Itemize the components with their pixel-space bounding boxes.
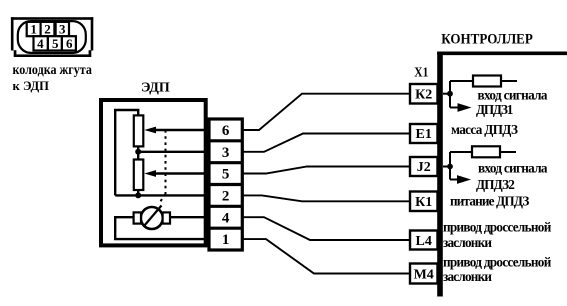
svg-text:5: 5	[222, 167, 230, 183]
svg-text:Х1: Х1	[414, 65, 428, 80]
svg-text:ДПДЗ2: ДПДЗ2	[476, 177, 515, 192]
svg-text:3: 3	[59, 22, 66, 37]
svg-text:1: 1	[30, 22, 37, 37]
svg-text:заслонки: заслонки	[443, 235, 492, 250]
svg-text:2: 2	[222, 188, 230, 204]
svg-text:1: 1	[222, 232, 230, 248]
svg-text:6: 6	[66, 36, 73, 51]
svg-text:ЭДП: ЭДП	[141, 81, 170, 96]
svg-text:колодка жгута: колодка жгута	[13, 62, 93, 77]
svg-text:6: 6	[222, 123, 230, 139]
svg-text:М4: М4	[414, 267, 434, 282]
svg-text:привод дроссельной: привод дроссельной	[443, 219, 552, 234]
svg-text:4: 4	[37, 36, 44, 51]
svg-text:ДПДЗ1: ДПДЗ1	[476, 102, 513, 117]
svg-text:К2: К2	[415, 88, 432, 103]
svg-text:к ЭДП: к ЭДП	[13, 78, 50, 93]
svg-text:вход сигнала: вход сигнала	[478, 87, 548, 102]
svg-text:5: 5	[52, 36, 59, 51]
svg-text:К1: К1	[415, 195, 432, 210]
svg-text:3: 3	[222, 145, 230, 161]
svg-text:Е1: Е1	[416, 127, 432, 142]
svg-text:КОНТРОЛЛЕР: КОНТРОЛЛЕР	[441, 32, 533, 48]
svg-text:масса ДПДЗ: масса ДПДЗ	[451, 122, 518, 137]
svg-text:2: 2	[44, 22, 51, 37]
svg-text:4: 4	[222, 210, 230, 226]
svg-text:L4: L4	[416, 234, 432, 249]
svg-text:привод дроссельной: привод дроссельной	[443, 254, 552, 269]
svg-text:вход сигнала: вход сигнала	[478, 161, 548, 176]
svg-text:заслонки: заслонки	[443, 269, 492, 284]
svg-text:J2: J2	[417, 160, 431, 175]
svg-text:питание ДПДЗ: питание ДПДЗ	[450, 193, 529, 208]
